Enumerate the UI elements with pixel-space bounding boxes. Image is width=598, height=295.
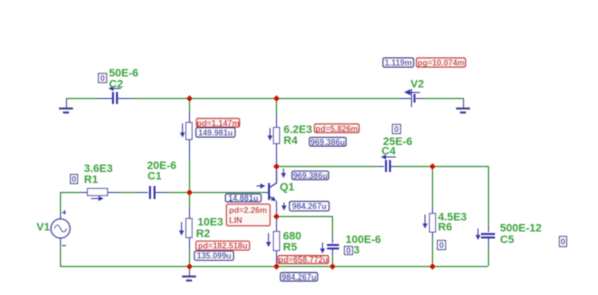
wire bias divider column (top rail to middle rail through R3) <box>189 98 191 192</box>
node 0 box near C4 <box>393 124 401 134</box>
resistor R3 body <box>186 123 192 140</box>
svg-text:R5: R5 <box>283 241 297 253</box>
current label box 14.881u at base <box>226 194 262 203</box>
source V1 sine wave <box>54 225 66 232</box>
resistor R5 body <box>274 232 280 251</box>
svg-text:C5: C5 <box>500 234 514 246</box>
source V2 current arrow <box>404 89 420 95</box>
designator R5 <box>283 241 297 253</box>
resistor R1 body <box>88 189 108 196</box>
wire R4 collector column (top rail to collector node) <box>276 98 278 166</box>
capacitor C2 leads <box>99 98 132 100</box>
svg-text:969.386u: 969.386u <box>293 171 328 180</box>
power label box pd=1.147m of R3 <box>197 119 240 128</box>
node 0 box near R6 <box>438 240 446 250</box>
designator C2 <box>109 78 123 90</box>
capacitor C4 plates <box>385 160 391 172</box>
capacitor C1 leads <box>136 192 168 194</box>
svg-text:R6: R6 <box>438 222 452 234</box>
collector current arrow <box>281 169 286 179</box>
resistor R2 current arrow <box>179 222 184 236</box>
node 0 box near R1 <box>71 174 78 184</box>
resistor R3 current arrow <box>180 124 185 138</box>
resistor R5 leads <box>276 216 278 266</box>
designator Q1 <box>280 182 295 194</box>
current label box 984.267u at emitter <box>290 202 330 212</box>
resistor R6 current arrow <box>423 215 428 229</box>
value label 4.5E3 of R6 <box>438 212 467 224</box>
svg-text:C2: C2 <box>109 78 123 90</box>
svg-text:0: 0 <box>346 246 351 256</box>
svg-text:0: 0 <box>72 174 77 184</box>
transistor Q1 base lead <box>264 192 268 194</box>
capacitor C3 leads <box>332 238 334 255</box>
emitter current arrow <box>282 203 287 211</box>
designator V2 <box>411 79 424 91</box>
source V1 plus sign <box>62 210 66 215</box>
capacitor C4 current arrow <box>381 155 396 160</box>
wire collector output segment (collector node to C4) <box>276 166 384 168</box>
svg-text:pd=2.26m: pd=2.26m <box>229 206 267 215</box>
svg-text:135.099u: 135.099u <box>197 252 232 261</box>
capacitor C5 current arrow <box>476 229 481 241</box>
value label 680 of R5 <box>283 230 301 242</box>
node junction emitter <box>273 213 279 219</box>
wire output segment (C4 to output corner) <box>391 166 488 168</box>
svg-text:10E3: 10E3 <box>198 216 224 228</box>
wire V1 bottom lead <box>60 238 62 266</box>
value label 100E-6 of C3 <box>346 234 381 246</box>
transistor Q1 base current arrow <box>257 184 266 189</box>
node junction bottom rail at R5 <box>273 263 279 269</box>
resistor R6 body <box>430 214 436 233</box>
current label box 969.386u of R4 <box>310 138 347 147</box>
wire R2 column (middle rail to bottom rail) <box>189 192 191 266</box>
value label 3.6E3 of R1 <box>84 163 113 175</box>
svg-text:0: 0 <box>439 240 444 250</box>
designator R2 <box>196 228 210 240</box>
resistor R6 leads <box>432 207 434 238</box>
svg-text:1.119m: 1.119m <box>385 59 412 68</box>
resistor R5 current arrow <box>266 233 271 247</box>
designator R6 <box>438 222 452 234</box>
wire bottom rail <box>60 266 488 268</box>
power label box pd=658.772u of R5 <box>278 256 329 265</box>
transistor Q1 collector lead <box>270 166 277 188</box>
svg-text:pd=5.826m: pd=5.826m <box>315 124 358 133</box>
svg-text:0: 0 <box>100 73 105 83</box>
node junction top rail at R4 column <box>273 95 279 101</box>
wire top rail middle segment (C2 to V2) <box>118 98 411 100</box>
source V1 minus sign <box>62 245 66 247</box>
wire input rail (V1 to C1 via R1) <box>60 192 148 194</box>
designator C5 <box>500 234 514 246</box>
transistor Q1 emitter lead <box>270 196 277 216</box>
power label box pg=10.074m of V2 <box>417 58 466 68</box>
svg-text:984.267u: 984.267u <box>292 202 327 211</box>
ground top-right <box>456 98 470 113</box>
svg-text:pd=182.518u: pd=182.518u <box>198 242 247 251</box>
capacitor C5 leads <box>488 226 490 244</box>
capacitor C2 plates <box>112 92 118 104</box>
resistor R4 body <box>274 128 280 144</box>
wire base rail (C1 to Q1 base) <box>155 192 268 194</box>
value label 25E-6 of C4 <box>383 136 412 148</box>
svg-text:LIN: LIN <box>229 216 242 225</box>
capacitor C1 plates <box>149 186 156 199</box>
wire C5 column (output corner to bottom rail) <box>488 166 490 266</box>
wire top rail right segment (V2 to right ground) <box>416 98 464 100</box>
node 0 box far right output <box>560 237 567 247</box>
node junction middle rail at R2 <box>186 189 192 195</box>
svg-text:V1: V1 <box>37 222 50 234</box>
resistor R4 leads <box>276 115 278 166</box>
node junction bottom rail at R6 <box>429 263 435 269</box>
wire emitter horizontal (emitter node to C3 branch) <box>276 216 332 218</box>
resistor R1 leads <box>80 192 120 194</box>
svg-text:984.267u: 984.267u <box>282 273 317 282</box>
ground bottom (below R2 node) <box>182 266 196 281</box>
current label box 984.267u below bottom rail <box>281 273 318 282</box>
capacitor C2 current arrow <box>109 86 122 91</box>
node junction output wire at R6 <box>429 163 435 169</box>
value label 10E3 of R2 <box>198 216 224 228</box>
svg-text:pd=658.772u: pd=658.772u <box>279 256 328 265</box>
svg-text:100E-6: 100E-6 <box>346 234 381 246</box>
value label 500E-12 of C5 <box>500 222 542 234</box>
svg-text:969.386u: 969.386u <box>310 138 345 147</box>
node 0 box near C3 <box>345 246 353 256</box>
power label box pd=2.26m LIN of Q1 <box>227 204 271 225</box>
capacitor C5 plates <box>481 233 495 239</box>
source V1 leads <box>60 213 62 244</box>
source V2 long plate <box>411 89 413 107</box>
node junction top rail at bias column <box>186 95 192 101</box>
svg-text:R4: R4 <box>284 135 299 147</box>
svg-text:149.981u: 149.981u <box>198 128 233 137</box>
svg-text:14.881u: 14.881u <box>228 194 258 203</box>
node junction bottom rail at ground <box>186 263 192 269</box>
svg-text:0: 0 <box>561 237 566 247</box>
resistor R4 current arrow <box>268 128 273 141</box>
svg-text:R2: R2 <box>196 228 210 240</box>
svg-text:C4: C4 <box>382 145 397 157</box>
source V2 leads <box>399 98 424 100</box>
node collector junction <box>273 163 279 169</box>
resistor R1 current arrow <box>91 196 104 201</box>
node junction bottom rail at C3 <box>329 263 335 269</box>
resistor R2 leads <box>189 208 191 250</box>
resistor R2 body <box>186 219 192 238</box>
designator C3 partial digit 3 <box>354 244 360 256</box>
designator C4 <box>382 145 397 157</box>
power label box pd=182.518u of R2 <box>196 241 250 250</box>
wire V1 top lead <box>60 192 62 219</box>
wire R6 column (output wire to bottom rail) <box>432 166 434 266</box>
capacitor C3 current arrow <box>320 243 325 254</box>
svg-text:V2: V2 <box>411 79 424 91</box>
capacitor C4 leads <box>379 166 396 168</box>
svg-text:500E-12: 500E-12 <box>500 222 542 234</box>
svg-text:C1: C1 <box>148 171 162 183</box>
designator R4 <box>284 135 299 147</box>
source V1 circle <box>51 219 70 238</box>
wire top rail left segment (left ground to C2) <box>66 98 111 100</box>
transistor Q1 base bar <box>268 183 270 200</box>
value label 6.2E3 of R4 <box>284 124 313 136</box>
resistor R3 leads <box>189 112 191 158</box>
svg-text:3: 3 <box>354 244 360 256</box>
value label 50E-6 of C2 <box>109 67 138 79</box>
capacitor C3 plates <box>327 244 339 250</box>
node 0 box near C2 <box>99 73 107 83</box>
designator C1 <box>148 171 162 183</box>
svg-text:R1: R1 <box>84 174 98 186</box>
designator V1 <box>37 222 50 234</box>
wire C3 branch vertical <box>332 216 334 266</box>
current label box 969.386u at collector <box>292 171 329 180</box>
svg-text:Q1: Q1 <box>280 182 295 194</box>
ground top-left <box>59 98 73 113</box>
svg-text:pd=1.147m: pd=1.147m <box>197 119 240 128</box>
current label box 149.981u of R3 <box>196 128 235 138</box>
current label box 135.099u of R2 <box>195 251 234 261</box>
power label box pd=5.826m of R4 <box>315 124 360 133</box>
value label 20E-6 of C1 <box>147 160 176 172</box>
source V2 short plate <box>414 94 416 103</box>
power label box 1.119m of V2 <box>383 58 414 68</box>
svg-text:0: 0 <box>394 124 399 134</box>
svg-text:pg=10.074m: pg=10.074m <box>417 59 464 68</box>
designator R1 <box>84 174 98 186</box>
